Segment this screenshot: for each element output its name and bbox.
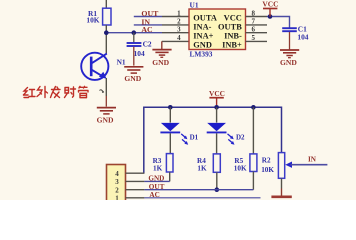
svg-text:OUT: OUT [149, 183, 165, 191]
wire [105, 25, 107, 54]
op-amp U1 LM393 [189, 1, 246, 59]
pin 2 stub [126, 189, 145, 191]
pin 1 stub [162, 16, 189, 18]
ground transistor [97, 108, 116, 125]
svg-text:2: 2 [177, 18, 181, 26]
wire OUT net [144, 189, 253, 191]
LED D2 [207, 107, 245, 154]
svg-text:8: 8 [252, 9, 256, 17]
svg-text:AC: AC [141, 25, 153, 34]
svg-text:5: 5 [252, 34, 256, 42]
resistor R3 [153, 154, 173, 173]
resistor R1 [86, 8, 111, 25]
svg-text:INB-: INB- [224, 31, 242, 40]
wire AC net [144, 197, 260, 199]
transistor N1 [81, 53, 126, 80]
外 [37, 87, 48, 98]
ground pin4 [152, 50, 171, 67]
node bus R5 [251, 105, 256, 110]
svg-text:INA+: INA+ [193, 31, 213, 40]
node bus D2 [214, 105, 219, 110]
svg-text:GND: GND [193, 40, 212, 49]
svg-text:VCC: VCC [262, 0, 278, 9]
wire [105, 78, 107, 96]
wire AC horizontal [106, 32, 162, 34]
connector J1 [107, 165, 126, 203]
svg-text:10K: 10K [86, 16, 99, 25]
wire IN [291, 164, 328, 166]
tiny mark [100, 90, 105, 93]
node R1 junction [104, 30, 109, 35]
svg-text:OUTA: OUTA [193, 13, 217, 22]
svg-text:1: 1 [115, 195, 119, 200]
pin 8 stub [246, 16, 268, 18]
svg-text:6: 6 [252, 26, 256, 34]
svg-text:INB+: INB+ [222, 40, 242, 49]
pin 3 stub [162, 32, 189, 34]
wire [133, 47, 135, 66]
wire R3 to GND net [169, 172, 171, 181]
svg-text:10K: 10K [234, 165, 247, 173]
svg-text:10K: 10K [261, 166, 274, 174]
resistor R5 [234, 107, 257, 172]
svg-text:LM393: LM393 [190, 50, 213, 59]
wire GND net [144, 180, 169, 182]
svg-text:AC: AC [149, 191, 159, 199]
pin 1 stub [126, 197, 145, 199]
射 [65, 87, 76, 98]
LED D1 [160, 107, 198, 153]
svg-text:U1: U1 [190, 1, 199, 10]
capacitor C2 [127, 33, 152, 58]
svg-text:4: 4 [115, 170, 119, 178]
发 [51, 87, 61, 98]
svg-text:D2: D2 [236, 133, 245, 141]
node bus D1 [168, 105, 173, 110]
power VCC top [262, 0, 278, 16]
svg-text:2: 2 [115, 186, 119, 194]
pin 6 stub [246, 32, 268, 34]
resistor R4 [197, 154, 220, 173]
pin 2 stub [162, 24, 189, 26]
node VCC junction [268, 14, 273, 19]
wire pin8 to C1 [267, 17, 290, 29]
svg-text:VCC: VCC [224, 13, 242, 22]
wire R2 to ground [281, 178, 283, 188]
label 红外发射管 [24, 86, 89, 97]
svg-text:C2: C2 [143, 39, 152, 48]
ground C1 [280, 50, 299, 67]
ground C2 [124, 67, 143, 83]
红 [24, 88, 36, 98]
wire [105, 0, 107, 9]
svg-text:1: 1 [177, 9, 181, 17]
svg-text:4: 4 [177, 34, 181, 42]
wire [289, 32, 291, 49]
svg-text:GND: GND [152, 58, 169, 67]
node C2 junction [132, 30, 137, 35]
power VCC bottom [209, 89, 225, 107]
node R4 OUT junction [215, 187, 220, 192]
capacitor C1 [282, 24, 309, 41]
svg-text:R2: R2 [262, 157, 271, 165]
svg-text:GND: GND [124, 74, 141, 83]
wire VCC bus [144, 107, 282, 173]
svg-text:OUTB: OUTB [218, 22, 242, 31]
svg-text:IN: IN [308, 156, 317, 164]
wire R5 to OUT net [252, 172, 254, 190]
svg-text:1K: 1K [197, 165, 207, 173]
svg-text:GND: GND [97, 116, 114, 125]
potentiometer R2 [261, 153, 292, 179]
svg-text:D1: D1 [190, 133, 199, 141]
wire R4 to OUT net [216, 172, 218, 189]
pin 3 stub [126, 180, 145, 182]
ground R2 bar [271, 196, 291, 199]
pin 7 stub [246, 24, 268, 26]
wire IN [134, 24, 162, 26]
svg-text:VCC: VCC [209, 89, 225, 98]
pin 4 wire to ground [162, 40, 189, 42]
svg-text:1K: 1K [153, 165, 163, 173]
svg-text:3: 3 [177, 26, 181, 34]
svg-text:N1: N1 [117, 57, 126, 66]
svg-text:104: 104 [134, 49, 145, 58]
wire OUT [134, 16, 162, 18]
svg-text:INA-: INA- [193, 22, 211, 31]
pin 5 stub [246, 40, 268, 42]
svg-text:104: 104 [297, 32, 308, 41]
svg-text:GND: GND [148, 174, 164, 182]
管 [79, 86, 89, 97]
wire [105, 96, 107, 107]
pin 4 stub [126, 172, 145, 174]
svg-text:3: 3 [115, 178, 119, 186]
svg-text:7: 7 [252, 18, 256, 26]
svg-text:GND: GND [280, 58, 297, 67]
